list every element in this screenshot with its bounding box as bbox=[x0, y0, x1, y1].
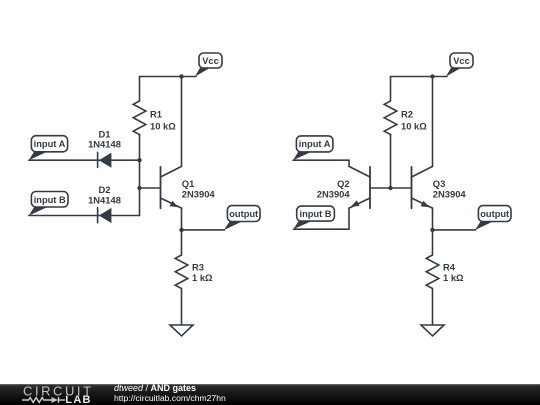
net flag output (left) bbox=[224, 206, 260, 230]
diode D1 1N4148 bbox=[88, 129, 121, 168]
net flag Vcc (left) bbox=[195, 53, 222, 77]
diode D2 1N4148 bbox=[88, 184, 121, 223]
net flag input B (right) bbox=[293, 206, 334, 229]
svg-text:input B: input B bbox=[34, 195, 66, 205]
node junction output left bbox=[179, 228, 183, 232]
CircuitLab logo squiggle (resistor+diode) bbox=[22, 397, 65, 403]
wire input B to D2 bbox=[29, 215, 140, 217]
svg-text:LAB: LAB bbox=[65, 394, 92, 405]
svg-text:D2: D2 bbox=[99, 184, 111, 195]
net flag input B (left) bbox=[29, 192, 68, 216]
wire Q1 emitter to output node bbox=[181, 208, 183, 230]
wire Q3 emitter to output node bbox=[432, 208, 434, 230]
node junction at Vcc rail / Q1 collector bbox=[179, 74, 183, 78]
footer credit text bbox=[114, 383, 226, 403]
ground (right) bbox=[421, 325, 444, 336]
svg-text:10 kΩ: 10 kΩ bbox=[150, 121, 176, 132]
wire Q2 emitter to input B bbox=[294, 208, 350, 229]
svg-text:input A: input A bbox=[299, 139, 331, 149]
wire output right bbox=[433, 229, 476, 231]
svg-text:R2: R2 bbox=[401, 109, 413, 120]
wire top rail left bbox=[140, 76, 197, 78]
node junction base tap bbox=[137, 186, 141, 190]
svg-text:http://circuitlab.com/chm27hn: http://circuitlab.com/chm27hn bbox=[114, 393, 226, 403]
svg-text:1 kΩ: 1 kΩ bbox=[443, 272, 464, 283]
transistor Q3 2N3904 bbox=[412, 166, 467, 208]
net flag Vcc (right) bbox=[446, 53, 473, 77]
resistor R1 10 kΩ bbox=[133, 77, 176, 137]
wire base bus Q2-Q3 bbox=[370, 187, 412, 189]
svg-text:input B: input B bbox=[299, 209, 331, 219]
svg-text:1N4148: 1N4148 bbox=[88, 194, 121, 205]
svg-text:2N3904: 2N3904 bbox=[317, 188, 351, 199]
wire Q3 collector to rail bbox=[432, 77, 434, 167]
node junction bases bbox=[388, 186, 392, 190]
svg-text:R4: R4 bbox=[443, 262, 456, 273]
svg-text:2N3904: 2N3904 bbox=[433, 188, 467, 199]
wire base of Q1 bbox=[140, 187, 161, 189]
svg-text:output: output bbox=[229, 209, 258, 219]
net flag input A (right) bbox=[293, 136, 333, 160]
wire input A to Q2 collector bbox=[293, 160, 349, 166]
node junction output right bbox=[430, 228, 434, 232]
net flag output (right) bbox=[475, 206, 511, 230]
transistor Q2 2N3904 bbox=[317, 166, 370, 208]
svg-text:Vcc: Vcc bbox=[202, 56, 219, 66]
wire input A to D1 bbox=[29, 159, 140, 161]
svg-text:dtweed / AND gates: dtweed / AND gates bbox=[114, 383, 196, 393]
net flag input A (left) bbox=[29, 136, 68, 161]
transistor Q1 2N3904 bbox=[161, 166, 216, 208]
svg-text:output: output bbox=[480, 209, 509, 219]
wire top rail right bbox=[391, 76, 448, 78]
svg-text:Vcc: Vcc bbox=[453, 56, 470, 66]
svg-text:1N4148: 1N4148 bbox=[88, 139, 121, 150]
CircuitLab logo wordmark bbox=[23, 384, 94, 405]
wire Q1 collector to rail bbox=[181, 77, 183, 167]
resistor R2 10 kΩ bbox=[384, 77, 427, 137]
svg-text:R3: R3 bbox=[192, 262, 204, 273]
svg-text:input A: input A bbox=[34, 139, 66, 149]
wire output left bbox=[182, 229, 225, 231]
wire R2 to base node bbox=[390, 135, 392, 189]
svg-text:10 kΩ: 10 kΩ bbox=[401, 121, 427, 132]
svg-text:1 kΩ: 1 kΩ bbox=[192, 272, 213, 283]
svg-text:R1: R1 bbox=[150, 109, 162, 120]
footer bar bbox=[0, 384, 540, 405]
resistor R3 1 kΩ bbox=[175, 230, 213, 325]
node junction at Vcc rail / Q3 collector bbox=[430, 74, 434, 78]
node junction D1/bus bbox=[137, 158, 141, 162]
resistor R4 1 kΩ bbox=[426, 230, 464, 325]
ground (left) bbox=[170, 325, 193, 336]
svg-text:2N3904: 2N3904 bbox=[182, 188, 216, 199]
wire vertical bus below R1 bbox=[139, 135, 141, 216]
